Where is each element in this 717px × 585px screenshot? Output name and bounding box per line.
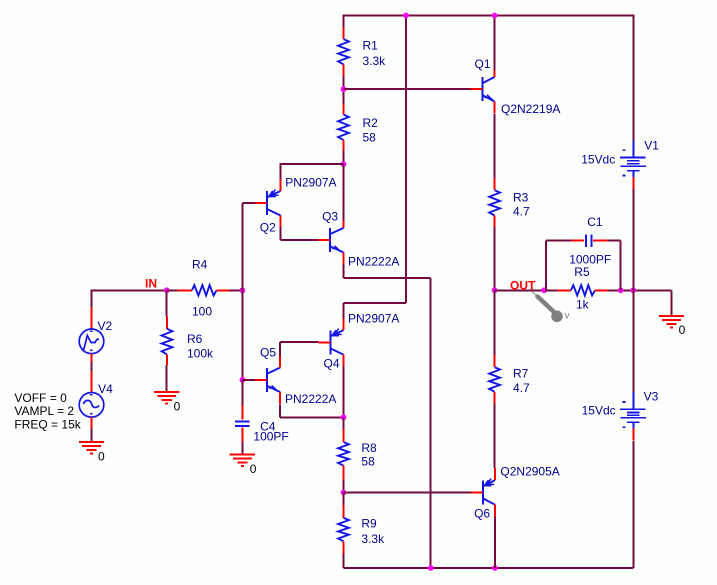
wire V4 to ground [91,429,93,443]
junction node [240,377,246,383]
wire Q3 emitter run [344,277,431,279]
ground [79,442,105,463]
wire OUT row left [495,289,558,291]
battery V1 [620,141,646,190]
svg-text:0: 0 [174,400,181,414]
wire Q2 emitter drop [280,163,282,179]
battery V3 [620,392,646,441]
svg-text:15Vdc: 15Vdc [581,153,615,167]
svg-text:4.7: 4.7 [513,205,530,219]
wire OUT row right [608,289,672,291]
resistor R5 [558,265,608,312]
wire Q1 collector column [494,15,496,72]
wire R9 top [343,493,345,506]
wire top rail [344,15,634,17]
resistor R4 [178,258,230,319]
wire Q2-Q3 link [281,239,319,241]
junction node [492,565,498,571]
wire Q4 drive column [405,15,407,304]
transistor Q5 [255,356,280,405]
wire Q5 base run [242,379,255,381]
svg-text:Q3: Q3 [322,210,338,224]
wire R6 top [166,290,168,316]
wire R4 left [167,289,178,291]
wire Q5-Q4 link [280,341,318,343]
wire Q5 emitter run [280,416,343,418]
wire R1 top lead [343,15,345,28]
svg-text:R9: R9 [361,517,377,531]
svg-text:Q2N2219A: Q2N2219A [501,102,560,116]
transistor Q4 [318,318,343,367]
svg-text:R3: R3 [513,191,529,205]
svg-text:C1: C1 [587,215,603,229]
wire Q5 emitter drop [279,404,281,417]
wire R3 to OUT [494,227,496,290]
transistor Q2 [255,179,280,228]
svg-text:Q1: Q1 [475,57,491,71]
wire V3 bottom [632,441,634,568]
svg-text:15Vdc: 15Vdc [582,404,616,418]
svg-text:R4: R4 [192,258,208,272]
svg-text:1000PF: 1000PF [569,253,611,267]
svg-text:R5: R5 [574,265,590,279]
wire R9 bottom [343,554,345,568]
wire V2 top pin [91,307,93,329]
svg-text:IN: IN [145,277,157,291]
svg-text:100PF: 100PF [253,430,288,444]
svg-text:R7: R7 [513,367,529,381]
wire R7 to Q6 [494,403,496,468]
svg-text:R6: R6 [187,332,203,346]
voltage source V2 [79,329,104,354]
svg-text:Q6: Q6 [474,507,490,521]
svg-text:0: 0 [98,449,105,463]
wire Q2 base column [241,203,243,290]
wire Q1 emitter [494,114,496,178]
svg-text:VAMPL = 2: VAMPL = 2 [14,404,74,418]
junction node [492,13,498,19]
svg-text:PN2222A: PN2222A [285,392,336,406]
svg-text:Q5: Q5 [260,346,276,360]
svg-text:100: 100 [192,305,212,319]
wire R4 right [230,289,243,291]
svg-text:FREQ = 15k: FREQ = 15k [14,417,81,431]
svg-text:v: v [565,311,570,322]
wire Q2 base run [242,202,255,204]
wire R8 top [343,417,345,429]
voltage source V4 [79,393,104,418]
capacitor C1 [546,215,621,291]
svg-text:58: 58 [361,455,375,469]
junction node [240,287,246,293]
wire Q6 base column [430,278,432,568]
svg-text:PN2907A: PN2907A [285,176,336,190]
junction node [341,86,347,92]
svg-text:3.3k: 3.3k [363,54,387,68]
capacitor C4 [235,405,289,444]
svg-text:VOFF = 0: VOFF = 0 [14,391,67,405]
wire R1 to R2 [343,77,345,105]
svg-text:58: 58 [363,131,377,145]
wire Q5 collector drop [279,342,281,356]
junction node [341,161,347,167]
svg-text:R1: R1 [363,39,379,53]
wire C4 top [241,380,243,405]
wire Q5 base column [241,290,243,380]
junction node [341,490,347,496]
wire to Q2 emitter [281,163,344,165]
svg-text:V3: V3 [644,390,659,404]
svg-text:V1: V1 [644,139,659,153]
svg-text:PN2222A: PN2222A [348,254,399,268]
svg-text:Q2: Q2 [260,221,276,235]
resistor R7 [489,355,530,404]
svg-text:0: 0 [679,323,686,337]
wire R2 bottom [343,150,345,164]
wire OUT to R7 [494,290,496,355]
wire IN feed [92,289,167,291]
wire V2 corner [91,289,93,307]
wire Q6 collector [494,516,496,568]
transistor Q3 [318,216,344,265]
voltage probe marker [532,291,570,322]
wire R8 bottom [343,480,345,493]
wire R6 to ground [166,365,168,392]
svg-text:100k: 100k [187,347,214,361]
junction node [403,13,409,19]
svg-text:0: 0 [250,462,257,476]
svg-text:4.7: 4.7 [513,381,530,395]
wire to right ground [671,290,673,316]
junction node [341,414,347,420]
junction node [618,287,624,293]
wire Q1 base run [344,88,471,90]
resistor R9 [338,505,385,554]
wire C4 to ground [241,441,243,454]
wire V4 bottom pin [91,417,93,428]
wire Q4 drive step [344,302,406,304]
resistor R3 [489,178,530,227]
ground [154,392,181,413]
resistor R2 [338,104,378,150]
junction node [428,565,434,571]
svg-text:V4: V4 [98,382,113,396]
wire bottom rail [344,567,634,569]
svg-text:PN2907A: PN2907A [348,312,399,326]
svg-text:Q2N2905A: Q2N2905A [500,465,559,479]
resistor R8 [338,429,377,479]
transistor Q6 [471,468,495,517]
svg-text:V2: V2 [98,319,113,333]
svg-text:R8: R8 [361,441,377,455]
wire Q3 emitter drop [343,264,345,278]
wire Q3 collector [343,164,345,221]
svg-text:1k: 1k [576,298,590,312]
transistor Q1 [470,71,494,114]
svg-text:3.3k: 3.3k [361,532,385,546]
ground [659,316,686,337]
junction node [541,287,547,293]
wire Q4 emitter drop [343,303,345,318]
wire V2-V4 pins [91,354,93,363]
ground [230,455,257,476]
svg-text:R2: R2 [363,116,379,130]
wire V1 to V3 [632,189,634,392]
resistor R1 [338,27,386,77]
wire Q6 base run [344,492,472,494]
wire Q2 collector drop [280,227,282,241]
wire Q4 collector drop [343,366,345,417]
svg-text:Q4: Q4 [324,357,340,371]
junction node [630,287,636,293]
wire V1 column top [632,15,634,141]
resistor R6 [162,316,214,364]
